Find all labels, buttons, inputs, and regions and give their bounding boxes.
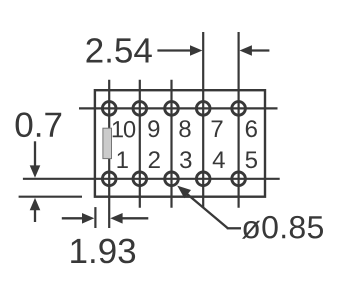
pin number 4 — [213, 152, 225, 169]
dimension 0.7 down arrow — [30, 141, 41, 177]
pin number 10 — [113, 121, 135, 138]
wire column line pin 9/2 — [139, 80, 141, 208]
wire column line pin 8/3 — [170, 80, 172, 208]
wire column line pin 6/5 (2.54 extension) — [238, 32, 240, 208]
pad 9 — [133, 102, 147, 116]
wire column line pin 10/1 — [108, 80, 110, 228]
pad 4 — [196, 172, 210, 186]
dimension 2.54 right arrow — [240, 45, 270, 56]
pad 2 — [133, 172, 147, 186]
dimension 1.93 left arrow — [62, 213, 95, 224]
wire bottom edge extension line — [19, 196, 82, 198]
dimension label 0.7 — [16, 112, 62, 137]
pin number 9 — [148, 120, 159, 137]
dimension label ø0.85 — [242, 216, 323, 239]
pin number 3 — [180, 151, 191, 168]
pad 8 — [165, 102, 179, 116]
dimension 0.7 up arrow — [30, 198, 41, 222]
pad 1 — [102, 172, 116, 186]
dimension label 1.93 — [71, 239, 135, 264]
wire bottom pad row centerline — [23, 178, 280, 180]
pin number 8 — [179, 120, 190, 137]
dimension label 2.54 — [87, 38, 152, 63]
component body outline — [95, 90, 265, 197]
pad 10 — [102, 102, 116, 116]
wire column line pin 7/4 (2.54 extension) — [202, 32, 204, 208]
pad 6 — [232, 102, 246, 116]
pad 7 — [196, 102, 210, 116]
dimension 1.93 right arrow — [110, 213, 148, 224]
pin number 1 — [118, 152, 128, 169]
pin number 6 — [246, 120, 257, 137]
pad 5 — [232, 172, 246, 186]
leader line for hole diameter — [177, 186, 241, 229]
pin number 7 — [212, 121, 223, 138]
polarity mark gray bar — [103, 128, 112, 158]
dimension 2.54 left arrow — [157, 45, 202, 56]
pad 3 — [165, 172, 179, 186]
wire top pad row centerline — [79, 107, 278, 109]
pin number 5 — [246, 152, 257, 169]
wire left edge extension tick (1.93) — [94, 207, 96, 228]
pin number 2 — [149, 151, 160, 168]
